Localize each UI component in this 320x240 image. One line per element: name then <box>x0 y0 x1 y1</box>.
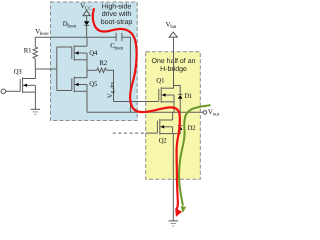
wire: Q2 source to ground <box>172 134 174 221</box>
wire: Q3 source to ground <box>34 92 36 109</box>
svg-text:Q1: Q1 <box>156 78 164 85</box>
wire: output rail to Q2 drain <box>172 112 174 120</box>
wire: Q5 drain to R2 node <box>86 70 88 77</box>
transistor Q1 <box>159 87 174 103</box>
capacitor Cboot <box>116 33 130 41</box>
svg-text:Q4: Q4 <box>89 50 98 57</box>
svg-text:Q3: Q3 <box>14 68 23 75</box>
Vcc power terminal arrow <box>83 10 90 21</box>
transistor Q5 <box>72 77 87 93</box>
wire: junction to driver input <box>35 68 57 70</box>
svg-text:Q2: Q2 <box>159 138 168 145</box>
half H-bridge dashed box (yellow) <box>146 52 201 180</box>
annotation: One half of an H-bridge <box>152 57 196 73</box>
red arrowhead <box>175 208 182 217</box>
Vout terminal circle <box>203 111 207 115</box>
wire: gate drive rail vertical <box>56 47 58 91</box>
svg-text:drive with: drive with <box>102 10 132 18</box>
green current path <box>179 105 210 205</box>
diode D2 <box>173 112 183 133</box>
svg-text:High-side: High-side <box>102 3 132 11</box>
wire: Q2 gate stub <box>146 132 158 134</box>
annotation: High-side drive with boot-strap <box>101 3 133 26</box>
wire: Q3 drain up to junction <box>34 69 36 79</box>
svg-text:Q5: Q5 <box>89 81 98 88</box>
wire: Q4 source to R2 node <box>86 60 88 71</box>
transistor Q2 <box>157 119 172 135</box>
red current path <box>93 9 180 209</box>
transistor Q4 <box>72 45 87 61</box>
Vbat power terminal arrow <box>169 32 177 88</box>
green arrowhead <box>181 206 187 213</box>
svg-text:D1: D1 <box>184 93 192 100</box>
wire: R2 to Vg_drv vertical <box>107 70 114 101</box>
wire: gate drive to Q1 gate <box>114 101 159 103</box>
svg-text:D2: D2 <box>188 125 197 132</box>
wire: input terminal to Q3 gate <box>5 90 20 92</box>
ground under Q3 <box>31 109 40 114</box>
wire: Vbat branch to D1 <box>174 86 181 95</box>
wire: Vboot rail <box>35 36 116 38</box>
input terminal circle <box>1 89 6 94</box>
transistor Q3 <box>20 78 35 94</box>
resistor R1 <box>33 47 38 59</box>
diode Dboot <box>84 21 90 37</box>
svg-text:R1: R1 <box>24 47 32 54</box>
wire: R1 to gate junction <box>34 59 36 69</box>
wire: Q1 source to output rail <box>173 102 175 113</box>
svg-text:R2: R2 <box>99 60 107 67</box>
svg-text:boot-strap: boot-strap <box>101 18 133 26</box>
diode D1 <box>178 94 183 112</box>
wire: to Q5 gate <box>57 90 72 92</box>
resistor R2 <box>97 68 107 73</box>
wire: Cboot to output rail <box>129 37 131 112</box>
wire: Vboot to R1 <box>34 37 36 47</box>
wire: R2 node to resistor <box>87 69 97 71</box>
wire: Q4 drain to boot rail <box>86 37 88 46</box>
ground under H-bridge <box>169 221 178 226</box>
high-side driver dashed box (blue) <box>51 2 138 121</box>
wire: low-side gate drive (dashed, from hidden driver) <box>113 132 146 134</box>
wire: Q5 source down to output rail <box>86 91 88 112</box>
wire: to Q4 gate <box>57 46 72 48</box>
output rail wire <box>87 111 203 113</box>
